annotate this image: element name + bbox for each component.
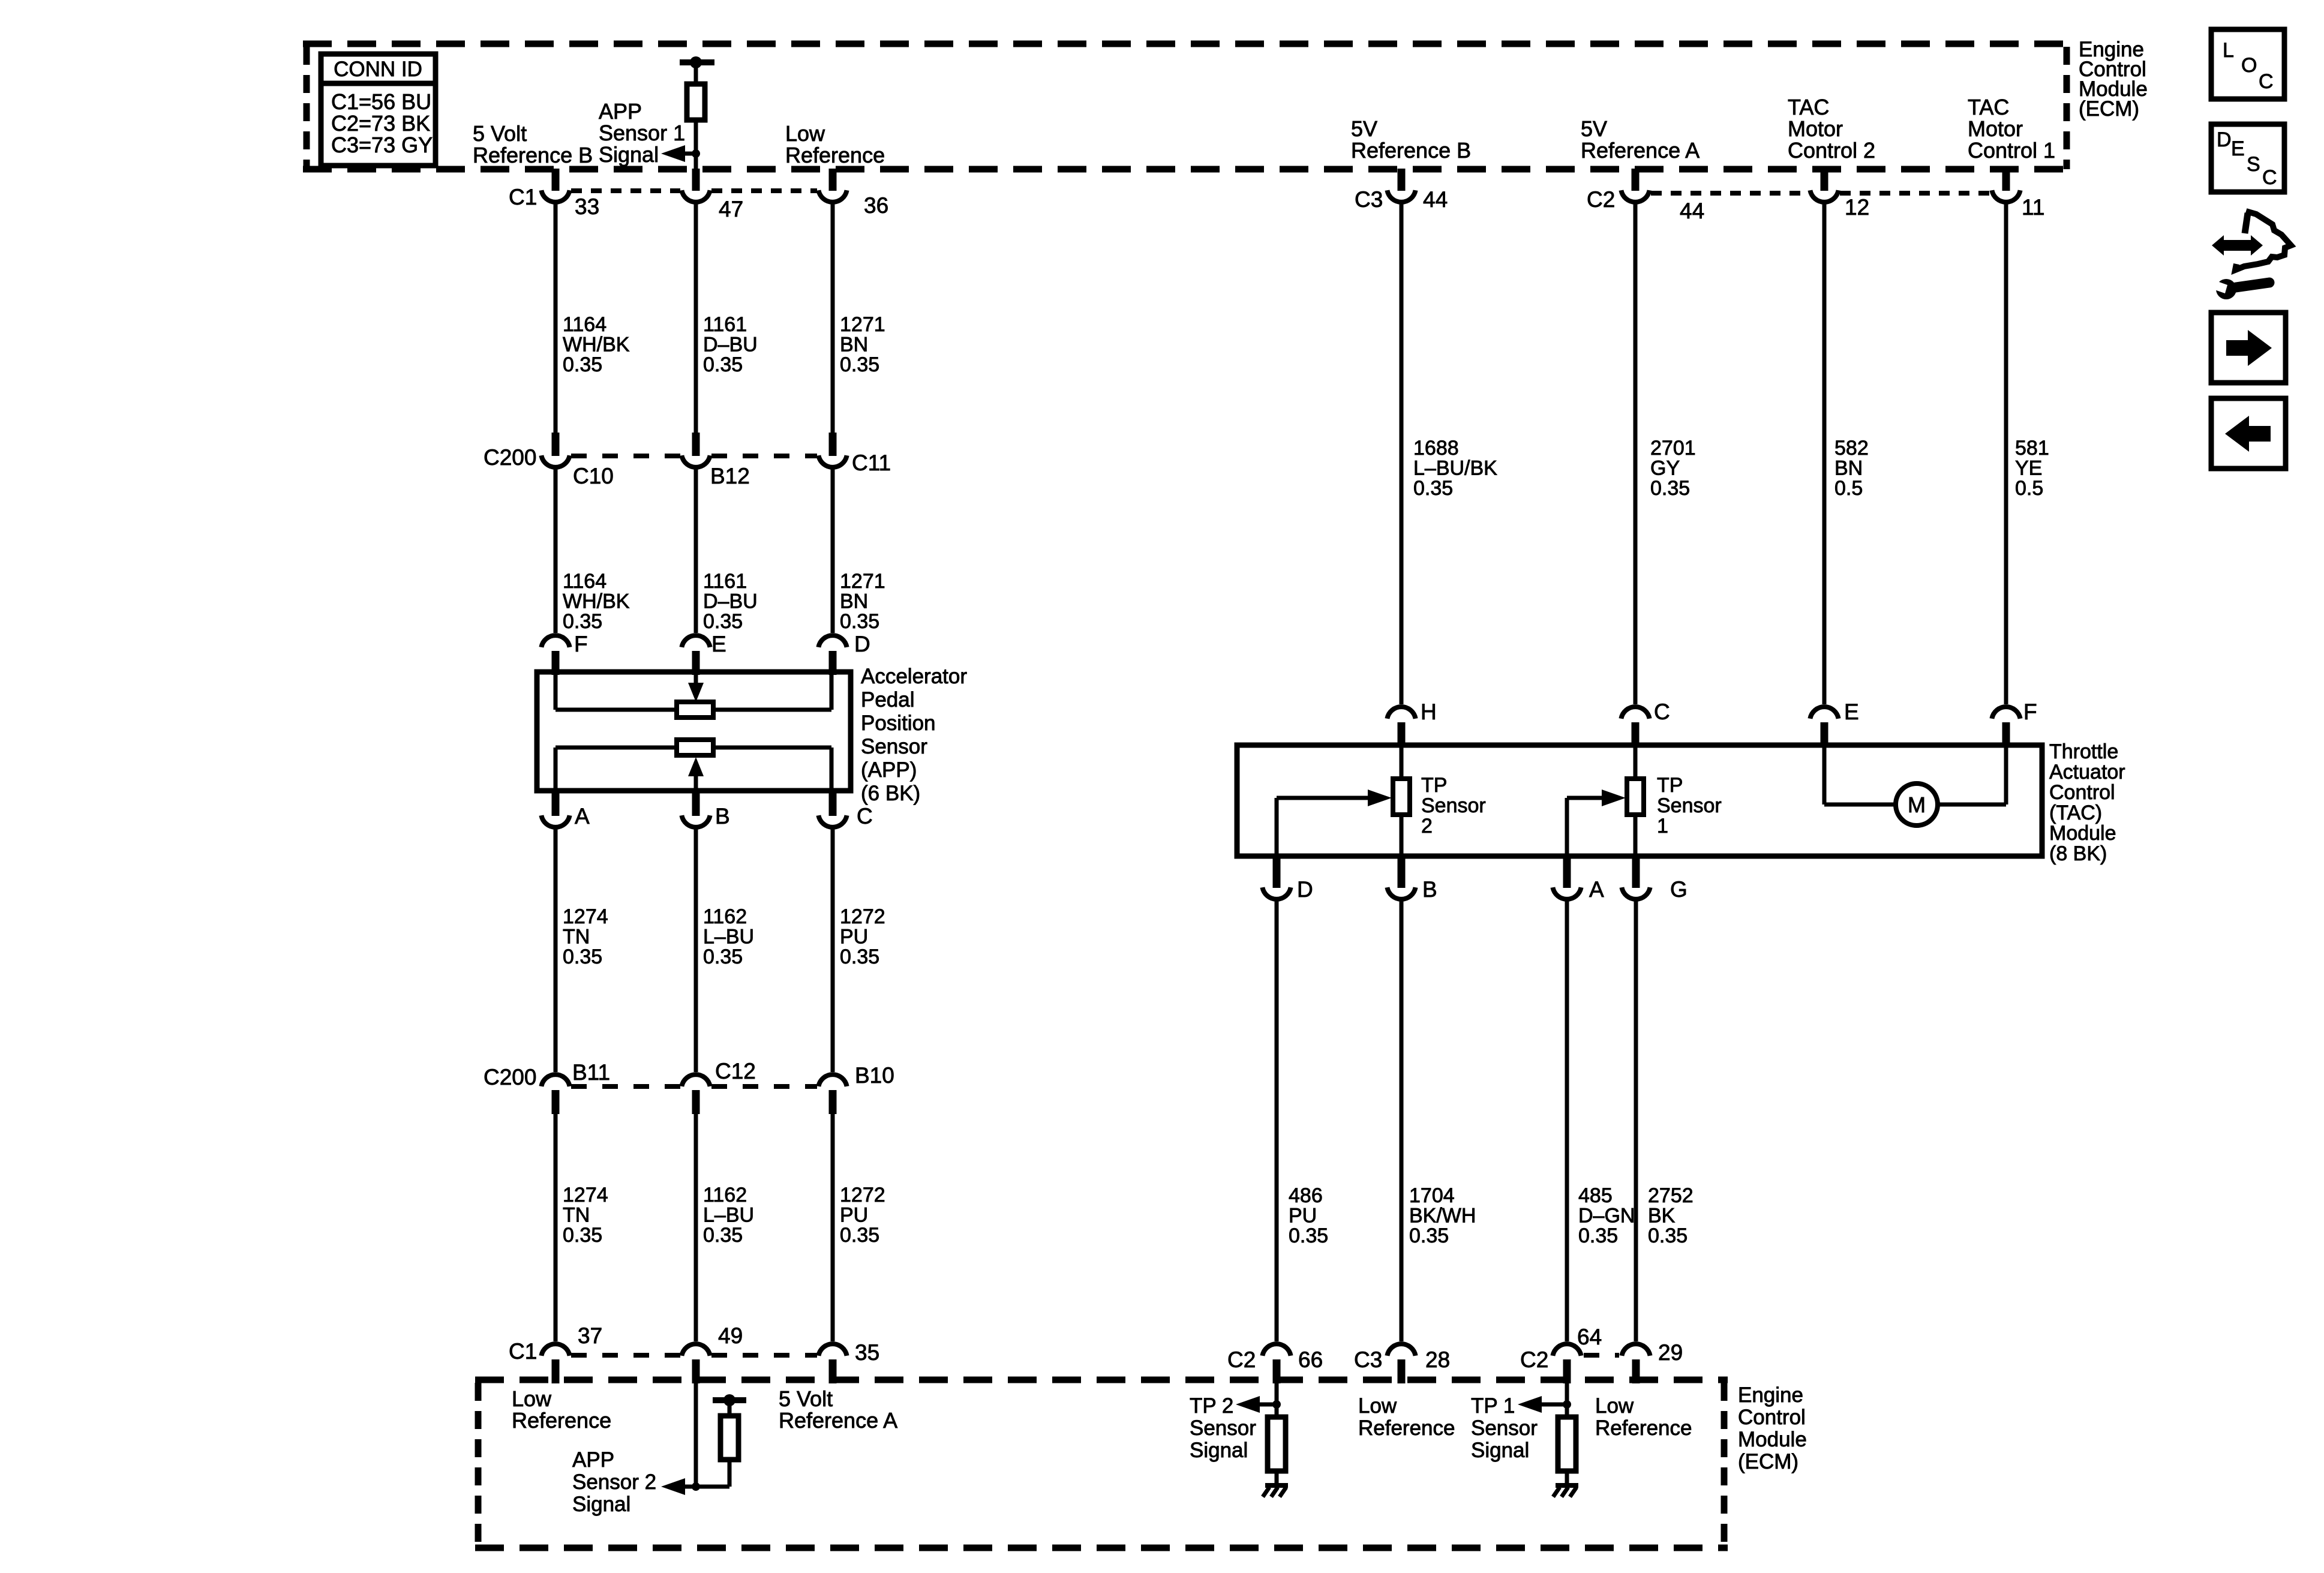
svg-text:Sensor: Sensor: [1421, 794, 1486, 817]
svg-text:5 Volt: 5 Volt: [473, 121, 527, 146]
svg-text:0.5: 0.5: [2015, 477, 2043, 500]
svg-text:582: 582: [1834, 437, 1869, 460]
ECM top dashed box (Engine Control Module): [303, 44, 2067, 169]
pin 37 (ECM C1): [541, 1344, 569, 1383]
svg-text:0.35: 0.35: [840, 945, 879, 968]
pin 44 (ECM C3): [1387, 169, 1415, 202]
wire 582 BN: [1822, 204, 1827, 704]
pin B11 (C200): [541, 1074, 569, 1114]
APP Sensor 1 Signal arrow + junction: [661, 145, 700, 162]
resistor APP sensor 1 pull-up inside ECM: [680, 56, 714, 169]
svg-text:M: M: [1908, 792, 1926, 817]
svg-text:(8 BK): (8 BK): [2049, 842, 2107, 865]
svg-text:1271: 1271: [840, 570, 885, 593]
pin D (TAC module): [1262, 857, 1290, 899]
svg-text:581: 581: [2015, 437, 2049, 460]
pin G (TAC module): [1622, 857, 1650, 899]
svg-text:0.35: 0.35: [703, 610, 743, 633]
icon back arrow box: [2211, 398, 2286, 469]
svg-text:Reference A: Reference A: [779, 1408, 897, 1433]
svg-text:1688: 1688: [1413, 437, 1459, 460]
svg-text:0.35: 0.35: [840, 610, 879, 633]
svg-text:S: S: [2247, 153, 2260, 176]
svg-text:APP: APP: [572, 1448, 614, 1472]
wire 1164 WH/BK segment 1: [554, 204, 558, 433]
svg-text:B: B: [1422, 877, 1437, 902]
svg-text:WH/BK: WH/BK: [563, 590, 630, 613]
svg-text:485: 485: [1578, 1184, 1613, 1207]
svg-text:C3: C3: [1355, 187, 1383, 212]
svg-text:0.35: 0.35: [840, 1224, 879, 1247]
svg-text:APP: APP: [599, 99, 642, 124]
pin 66 (ECM C2): [1262, 1344, 1290, 1383]
svg-text:BK: BK: [1648, 1205, 1676, 1227]
svg-text:C: C: [1654, 700, 1670, 724]
icon LOC box: [2211, 29, 2284, 99]
pin C (TAC module): [1621, 707, 1649, 746]
svg-text:Accelerator: Accelerator: [861, 665, 967, 688]
svg-text:1162: 1162: [703, 1184, 747, 1206]
icon DESC box: [2211, 124, 2284, 192]
svg-text:36: 36: [864, 193, 888, 218]
svg-text:B10: B10: [855, 1063, 894, 1088]
svg-text:Reference B: Reference B: [473, 143, 593, 167]
TAC module box: [1237, 745, 2042, 856]
APP Sensor 2 Signal arrow + junction: [661, 1478, 700, 1495]
svg-text:Motor: Motor: [1968, 116, 2023, 141]
svg-text:H: H: [1421, 700, 1437, 724]
svg-text:11: 11: [2022, 195, 2044, 220]
pin B (TAC module): [1387, 857, 1415, 899]
svg-text:66: 66: [1298, 1347, 1323, 1372]
svg-text:G: G: [1670, 877, 1688, 902]
svg-text:D: D: [1297, 877, 1313, 902]
svg-text:12: 12: [1845, 195, 1869, 220]
svg-text:Control 1: Control 1: [1968, 138, 2055, 163]
svg-text:Signal: Signal: [572, 1493, 630, 1516]
svg-text:Engine: Engine: [1738, 1383, 1803, 1407]
wire 1272 PU segment 2: [831, 1113, 835, 1341]
wire 1274 TN segment 1: [554, 829, 558, 1072]
svg-text:47: 47: [719, 197, 743, 221]
wire 1161 D-BU segment 1: [694, 204, 698, 433]
svg-text:Reference A: Reference A: [1581, 138, 1700, 163]
svg-text:L–BU: L–BU: [703, 926, 754, 948]
svg-text:TP: TP: [1421, 774, 1447, 797]
wire 1162 L-BU segment 2: [694, 1113, 698, 1341]
svg-text:(APP): (APP): [861, 758, 917, 782]
svg-text:GY: GY: [1650, 457, 1680, 480]
svg-text:0.35: 0.35: [703, 353, 743, 376]
svg-text:0.5: 0.5: [1834, 477, 1863, 500]
wire 1274 TN segment 2: [554, 1113, 558, 1341]
pin C11 (C200): [818, 433, 846, 467]
svg-text:(ECM): (ECM): [2079, 97, 2139, 121]
svg-text:1161: 1161: [703, 570, 747, 593]
svg-text:0.35: 0.35: [1409, 1224, 1449, 1247]
connector C1 dashed link pin49-pin35: [711, 1353, 817, 1358]
svg-text:C2=73 BK: C2=73 BK: [331, 111, 430, 136]
svg-text:5V: 5V: [1351, 116, 1377, 141]
ground (TP2 pull-down): [1263, 1485, 1288, 1497]
pin C10 (C200): [541, 433, 569, 467]
svg-text:Sensor: Sensor: [1657, 794, 1722, 817]
svg-text:0.35: 0.35: [1289, 1224, 1328, 1247]
svg-text:C200: C200: [484, 1065, 536, 1089]
wire 1271 BN segment 1: [831, 204, 835, 433]
connector C2 dashed link pin44-pin12: [1651, 191, 1809, 196]
svg-text:C1=56 BU: C1=56 BU: [331, 89, 431, 114]
svg-text:Motor: Motor: [1788, 116, 1843, 141]
svg-text:Sensor: Sensor: [1190, 1416, 1256, 1440]
svg-text:2701: 2701: [1650, 437, 1696, 460]
pin 64 (ECM C2): [1553, 1344, 1581, 1383]
svg-text:D: D: [854, 632, 870, 656]
svg-text:Control: Control: [1738, 1406, 1806, 1429]
svg-text:Module: Module: [1738, 1428, 1807, 1451]
svg-text:YE: YE: [2015, 457, 2042, 480]
APP sensor box: [537, 672, 851, 791]
TP Sensor 2 wiper arrow from pin D: [1277, 789, 1392, 856]
svg-text:PU: PU: [1289, 1205, 1317, 1227]
svg-text:Reference: Reference: [512, 1408, 611, 1433]
svg-text:Reference: Reference: [785, 143, 885, 167]
potentiometer APP2 track: [556, 740, 831, 791]
svg-text:Position: Position: [861, 712, 936, 735]
svg-text:33: 33: [575, 194, 599, 219]
connector C200 dashed link B11-C12: [571, 1084, 680, 1089]
svg-text:Sensor 1: Sensor 1: [599, 121, 685, 145]
svg-text:5V: 5V: [1581, 116, 1607, 141]
svg-text:C2: C2: [1587, 187, 1615, 212]
svg-text:Module: Module: [2049, 822, 2116, 845]
svg-text:D: D: [2217, 128, 2232, 151]
wire 2701 GY: [1634, 204, 1638, 704]
connector C1 dashed link pin37-pin49: [571, 1353, 680, 1358]
svg-text:2: 2: [1421, 815, 1433, 837]
svg-text:C10: C10: [573, 464, 614, 488]
svg-text:L: L: [2223, 39, 2234, 62]
icon forward arrow box: [2211, 313, 2286, 383]
svg-text:D–BU: D–BU: [703, 334, 758, 356]
svg-text:35: 35: [855, 1340, 879, 1365]
ECM bottom dashed box (Engine Control Module): [475, 1380, 1728, 1548]
pin 11 (ECM C2): [1992, 169, 2020, 202]
TP Sensor 1 wiper arrow from pin A: [1567, 789, 1626, 856]
svg-text:C3=73 GY: C3=73 GY: [331, 133, 433, 157]
pin 44 (ECM C2): [1621, 169, 1649, 202]
CONN ID table: [321, 54, 436, 166]
connector C1 dashed link pin47-pin36: [711, 188, 817, 193]
svg-text:TP 2: TP 2: [1190, 1394, 1233, 1418]
svg-text:O: O: [2241, 54, 2257, 77]
svg-text:44: 44: [1423, 187, 1448, 212]
wire pin49 to APP sensor 2 signal node: [694, 1382, 698, 1487]
svg-text:BN: BN: [1834, 457, 1863, 480]
svg-text:Low: Low: [512, 1386, 552, 1411]
connector C2 dashed link pin64-pin29: [1584, 1353, 1619, 1358]
wire 485 D-GN: [1565, 901, 1569, 1341]
pin A (APP sensor): [541, 792, 569, 827]
svg-text:D–GN: D–GN: [1578, 1205, 1635, 1227]
svg-text:0.35: 0.35: [1413, 477, 1453, 500]
svg-text:TAC: TAC: [1788, 95, 1829, 119]
wire 1271 BN segment 2: [831, 469, 835, 633]
svg-text:C1: C1: [509, 185, 537, 209]
svg-text:Pedal: Pedal: [861, 688, 915, 712]
connector C1 dashed link pin33-pin47: [571, 188, 680, 193]
svg-text:1271: 1271: [840, 313, 885, 336]
ground (TP1 pull-down): [1553, 1485, 1578, 1497]
svg-text:C2: C2: [1227, 1347, 1256, 1372]
svg-text:Reference: Reference: [1358, 1416, 1455, 1440]
svg-text:Low: Low: [1358, 1394, 1397, 1418]
pin D (APP sensor): [818, 635, 846, 675]
svg-text:1162: 1162: [703, 905, 747, 928]
pin E (TAC module): [1810, 707, 1838, 746]
pin 47 (ECM C1): [681, 169, 710, 202]
wire 581 YE: [2004, 204, 2008, 704]
TP 1 sensor signal branch: junction, resistor, ground: [1518, 1382, 1576, 1484]
potentiometer TP Sensor 2: [1393, 745, 1410, 856]
svg-text:486: 486: [1289, 1184, 1323, 1207]
svg-text:C: C: [2262, 166, 2277, 189]
potentiometer TP Sensor 1: [1627, 745, 1644, 856]
svg-text:Throttle: Throttle: [2049, 740, 2118, 763]
svg-text:E: E: [1844, 700, 1859, 724]
wire 486 PU: [1275, 901, 1279, 1341]
pin A (TAC module): [1553, 857, 1581, 899]
wire 1704 BK/WH: [1400, 901, 1404, 1341]
svg-text:TN: TN: [563, 1204, 590, 1227]
resistor APP sensor 2 pull-up inside ECM: [696, 1394, 746, 1487]
svg-text:Reference B: Reference B: [1351, 138, 1471, 163]
pin H (TAC module): [1387, 707, 1415, 746]
svg-text:L–BU/BK: L–BU/BK: [1413, 457, 1497, 480]
svg-text:0.35: 0.35: [703, 1224, 743, 1247]
pin C12 (C200): [681, 1074, 710, 1114]
icon service (double arrow, part outline, wrench): [2211, 211, 2291, 299]
svg-text:Signal: Signal: [1190, 1439, 1248, 1462]
svg-text:C1: C1: [509, 1339, 537, 1364]
svg-text:Low: Low: [1595, 1394, 1634, 1418]
svg-text:D–BU: D–BU: [703, 590, 758, 613]
wire 1164 WH/BK segment 2: [554, 469, 558, 633]
connector C200 dashed link B12-C11: [711, 454, 817, 458]
svg-text:44: 44: [1680, 199, 1704, 223]
wire 1272 PU segment 1: [831, 829, 835, 1072]
svg-text:(6 BK): (6 BK): [861, 782, 920, 805]
svg-text:C: C: [857, 804, 873, 828]
svg-text:0.35: 0.35: [1578, 1224, 1618, 1247]
wire 2752 BK: [1634, 901, 1638, 1341]
pin 33 (ECM C1): [541, 169, 569, 202]
svg-text:PU: PU: [840, 926, 868, 948]
svg-text:1164: 1164: [563, 313, 606, 336]
svg-text:C200: C200: [484, 445, 536, 470]
wire 1161 D-BU segment 2: [694, 469, 698, 633]
pin C (APP sensor): [818, 792, 846, 827]
svg-text:E: E: [2231, 137, 2245, 160]
svg-text:A: A: [575, 804, 590, 828]
pin 12 (ECM C2): [1810, 169, 1838, 202]
connector C200 dashed link C12-B10: [711, 1084, 817, 1089]
wire 1688 L-BU/BK: [1400, 204, 1404, 704]
svg-text:0.35: 0.35: [563, 353, 602, 376]
pin F (TAC module): [1992, 707, 2020, 746]
svg-text:64: 64: [1577, 1325, 1602, 1349]
svg-text:Control 2: Control 2: [1788, 138, 1875, 163]
svg-text:C12: C12: [715, 1059, 756, 1083]
pin 35 (ECM C1): [818, 1344, 846, 1383]
svg-text:29: 29: [1658, 1340, 1683, 1365]
svg-text:WH/BK: WH/BK: [563, 334, 630, 356]
svg-text:BN: BN: [840, 590, 868, 613]
potentiometer APP1 track: [556, 672, 831, 718]
svg-text:0.35: 0.35: [1648, 1224, 1688, 1247]
svg-text:1272: 1272: [840, 1184, 885, 1206]
svg-text:Sensor: Sensor: [861, 735, 927, 758]
svg-text:(TAC): (TAC): [2049, 801, 2102, 824]
svg-text:E: E: [711, 632, 726, 656]
svg-text:L–BU: L–BU: [703, 1204, 754, 1227]
svg-text:49: 49: [718, 1323, 743, 1348]
wire 1162 L-BU segment 1: [694, 829, 698, 1072]
pin 29 (ECM C2): [1622, 1344, 1650, 1383]
svg-text:Signal: Signal: [599, 142, 659, 167]
motor M (TAC): [1824, 745, 2006, 825]
svg-text:1274: 1274: [563, 905, 608, 928]
svg-text:0.35: 0.35: [563, 1224, 602, 1247]
svg-text:0.35: 0.35: [1650, 477, 1690, 500]
svg-text:1272: 1272: [840, 905, 885, 928]
svg-text:A: A: [1589, 877, 1604, 902]
pin E (APP sensor): [681, 635, 710, 675]
pin B (APP sensor): [681, 792, 710, 827]
svg-text:28: 28: [1425, 1347, 1450, 1372]
svg-text:37: 37: [578, 1323, 602, 1348]
connector C2 dashed link pin12-pin11: [1840, 191, 1990, 196]
svg-text:Control: Control: [2049, 781, 2115, 804]
svg-text:CONN ID: CONN ID: [334, 58, 422, 81]
svg-text:Sensor 2: Sensor 2: [572, 1470, 656, 1494]
pin F (APP sensor): [541, 635, 569, 675]
svg-text:BN: BN: [840, 334, 868, 356]
svg-text:1704: 1704: [1409, 1184, 1455, 1207]
svg-text:BK/WH: BK/WH: [1409, 1205, 1476, 1227]
svg-text:C2: C2: [1520, 1347, 1548, 1372]
svg-text:F: F: [2023, 700, 2037, 724]
pin B12 (C200): [681, 433, 710, 467]
potentiometer APP1 wiper arrow from E: [688, 672, 704, 702]
svg-text:1274: 1274: [563, 1184, 608, 1206]
svg-text:Low: Low: [785, 121, 825, 146]
svg-text:TP 1: TP 1: [1471, 1394, 1515, 1418]
svg-text:(ECM): (ECM): [1738, 1450, 1798, 1473]
potentiometer APP2 wiper arrow from B: [688, 757, 704, 791]
svg-text:0.35: 0.35: [563, 610, 602, 633]
svg-text:Actuator: Actuator: [2049, 761, 2125, 784]
svg-text:B11: B11: [572, 1060, 610, 1085]
svg-text:5 Volt: 5 Volt: [779, 1386, 833, 1411]
svg-text:0.35: 0.35: [840, 353, 879, 376]
svg-text:1164: 1164: [563, 570, 606, 593]
svg-text:1161: 1161: [703, 313, 747, 336]
svg-text:0.35: 0.35: [563, 945, 602, 968]
svg-text:TP: TP: [1657, 774, 1683, 797]
connector C200 dashed link C10-B12: [571, 454, 680, 458]
TP 2 sensor signal branch: junction, resistor, ground: [1236, 1382, 1286, 1484]
pin 36 (ECM C1): [818, 169, 846, 202]
svg-text:PU: PU: [840, 1204, 868, 1227]
svg-text:0.35: 0.35: [703, 945, 743, 968]
pin B10 (C200): [818, 1074, 846, 1114]
svg-text:Signal: Signal: [1471, 1439, 1529, 1462]
svg-text:Sensor: Sensor: [1471, 1416, 1538, 1440]
svg-text:1: 1: [1657, 815, 1668, 837]
svg-text:F: F: [574, 632, 588, 656]
pin 28 (ECM C3): [1387, 1344, 1415, 1383]
svg-text:C: C: [2259, 70, 2274, 93]
svg-text:TN: TN: [563, 926, 590, 948]
svg-text:2752: 2752: [1648, 1184, 1694, 1207]
svg-text:C11: C11: [852, 451, 891, 475]
svg-text:B12: B12: [710, 464, 750, 488]
svg-text:TAC: TAC: [1968, 95, 2009, 119]
svg-text:C3: C3: [1354, 1347, 1382, 1372]
svg-text:Reference: Reference: [1595, 1416, 1692, 1440]
svg-text:B: B: [715, 804, 730, 828]
pin 49 (ECM C1): [681, 1344, 710, 1383]
